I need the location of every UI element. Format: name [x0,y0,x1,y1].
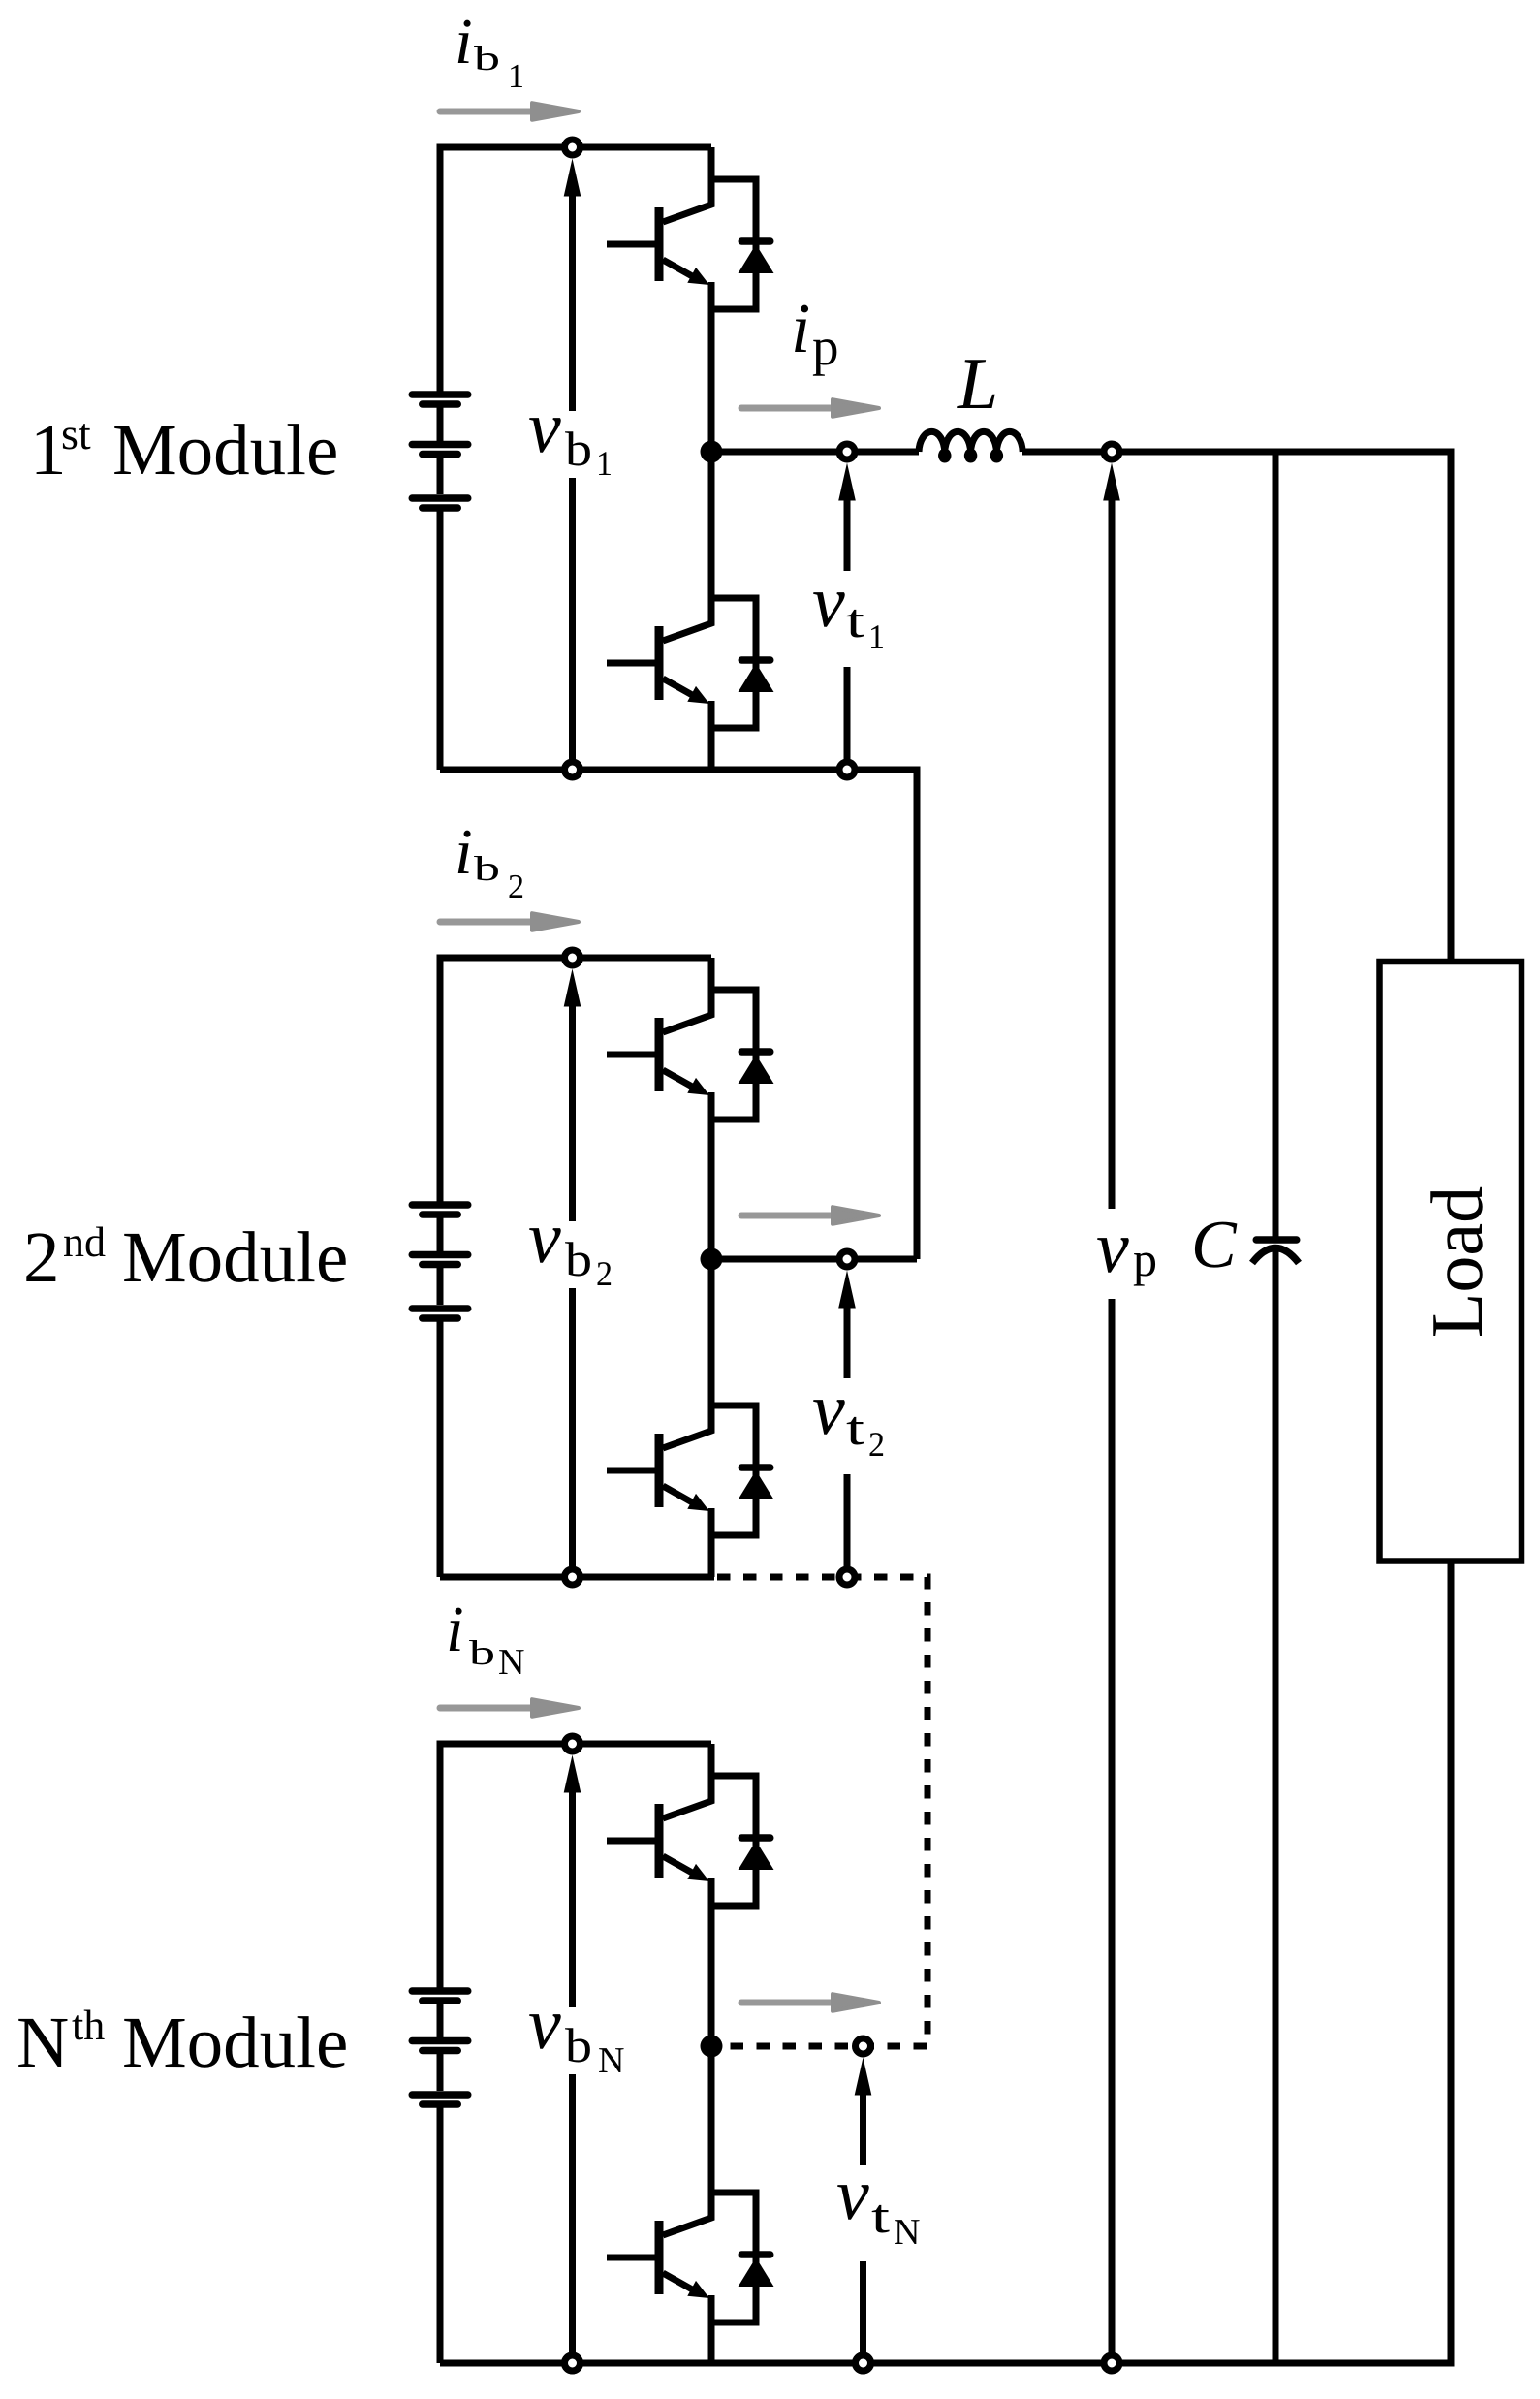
wire: module 1 bottom rail and link down to module 2 output [440,770,917,1259]
battery BN (3-cell stack) [412,1991,468,2104]
svg-text:v: v [836,2154,869,2235]
voltage arrow v_t1 [838,463,856,761]
svg-text:b: b [565,2018,592,2072]
svg-text:i: i [791,289,810,367]
diode Q1LD (antiparallel) [711,598,774,728]
svg-text:b: b [474,849,500,888]
wire: module 2 left leg and top rail [440,958,711,1577]
svg-text:Load: Load [1417,1186,1498,1338]
voltage arrow v_bN [564,1755,581,2354]
voltage arrow v_b2 [564,969,581,1568]
IGBT Q1H [607,147,711,452]
wire: module N left leg and top rail [440,1744,711,2363]
svg-text:i: i [446,1594,464,1665]
wire: load bottom lead [1448,1562,1455,2364]
label v_b2 [528,1197,613,1293]
label v_t2 [812,1369,885,1464]
diode Q2LD (antiparallel) [711,1405,774,1535]
node: module 2 half-bridge midpoint [701,1248,723,1271]
voltage arrow v_b1 [564,159,581,761]
node: module N battery positive terminal [565,1736,581,1752]
svg-text:N: N [598,2040,624,2081]
current arrow at module 2 output (gray) [741,1207,879,1224]
current arrow i_b2 (gray) [440,913,579,931]
svg-text:L: L [957,343,998,425]
voltage arrow v_tN [855,2058,872,2354]
wire: bottom return rail [440,2360,1455,2367]
label v_b1 [528,387,613,483]
svg-text:2: 2 [868,1425,885,1464]
svg-text:b: b [469,1633,495,1672]
module N caption [16,2002,348,2083]
node: module 2 battery positive terminal [565,950,581,965]
node: module N half-bridge midpoint [701,2036,723,2058]
svg-text:2: 2 [23,1217,60,1298]
wire: inductor to load top corner [1022,452,1451,962]
label C [1191,1208,1238,1282]
svg-text:1: 1 [508,57,524,95]
label i_b1 [455,6,524,95]
node: module 1 return terminal [839,762,855,777]
node: module 2 return terminal [839,1569,855,1585]
node: bottom rail v_p terminal [1104,2355,1119,2371]
label i_b2 [455,816,524,905]
diode QNLD (antiparallel) [711,2193,774,2322]
label L [957,343,998,425]
load box [1380,962,1523,1562]
svg-text:v: v [528,1983,561,2065]
svg-text:N: N [498,1642,524,1683]
wire: module 1 left leg and top rail [440,147,711,770]
node: v_p sense point [1104,444,1119,459]
label i_p [791,289,839,376]
IGBT QNH [607,1744,711,2046]
label i_bN [446,1594,524,1683]
IGBT Q2L [607,1259,711,1577]
svg-text:N: N [16,2003,69,2083]
label Load (rotated) [1417,1186,1498,1338]
svg-text:t: t [846,593,864,647]
voltage arrow v_t2 [838,1271,856,1568]
current arrow at module N output (gray) [741,1994,879,2011]
svg-text:v: v [528,387,561,468]
node: module N output terminal [856,2038,871,2054]
svg-text:p: p [1133,1232,1157,1286]
wire: module 2 output over to up-link [711,1256,917,1263]
svg-text:2: 2 [508,868,524,905]
node: module N return terminal [856,2355,871,2371]
inductor L [919,431,1022,459]
battery B2 (3-cell stack) [412,1205,468,1318]
capacitor C [1252,452,1299,2363]
svg-text:th: th [72,2002,105,2049]
svg-text:i: i [455,816,473,888]
voltage arrow v_p [1103,463,1120,2354]
svg-text:b: b [565,422,592,476]
diode Q1HD (antiparallel) [711,179,774,309]
node: bottom rail v_tN terminal [856,2355,871,2371]
label v_bN [528,1983,624,2081]
node: module 1 half-bridge midpoint [701,441,723,463]
current arrow at module 1 output (gray) [741,399,879,417]
svg-text:v: v [1096,1207,1129,1288]
battery B1 (3-cell stack) [412,395,468,508]
svg-text:p: p [812,317,839,376]
svg-text:t: t [871,2189,890,2243]
node: module N battery negative terminal [565,2355,581,2371]
label v_p [1096,1207,1157,1288]
svg-text:v: v [528,1197,561,1278]
svg-text:2: 2 [596,1254,613,1293]
svg-text:Module: Module [122,2003,348,2083]
svg-text:1: 1 [596,444,613,483]
svg-text:b: b [565,1232,592,1286]
svg-text:v: v [812,561,845,643]
current arrow i_bN (gray) [440,1699,579,1717]
node: module 1 battery positive terminal [565,140,581,155]
wire: module 2 bottom rail [440,1574,714,1581]
svg-text:C: C [1191,1208,1238,1282]
label v_tN [836,2154,920,2253]
svg-text:b: b [474,39,500,78]
IGBT Q2H [607,958,711,1259]
node: module 1 battery negative terminal [565,762,581,777]
svg-text:nd: nd [63,1218,106,1266]
svg-text:Module: Module [122,1217,348,1298]
diode QNHD (antiparallel) [711,1776,774,1906]
IGBT QNL [607,2046,711,2363]
svg-text:st: st [61,409,91,458]
svg-text:Module: Module [112,410,338,490]
current arrow i_b1 (gray) [440,103,579,120]
node: bottom rail battery N terminal [565,2355,581,2371]
module 2 caption [23,1217,348,1298]
IGBT Q1L [607,452,711,770]
svg-text:i: i [455,6,473,78]
node: module 1 output terminal [839,444,855,459]
node: module 2 output terminal [839,1251,855,1267]
label v_t1 [812,561,885,656]
wire: module 1 output to inductor [711,449,919,456]
diode Q2HD (antiparallel) [711,990,774,1120]
svg-text:v: v [812,1369,845,1450]
svg-text:N: N [894,2212,920,2253]
svg-text:t: t [846,1401,864,1455]
module 1 caption [30,409,338,490]
svg-text:1: 1 [868,617,885,656]
wire: dashed extension from module 2 bottom to module N output [717,1577,927,2046]
node: module 2 battery negative terminal [565,1569,581,1585]
